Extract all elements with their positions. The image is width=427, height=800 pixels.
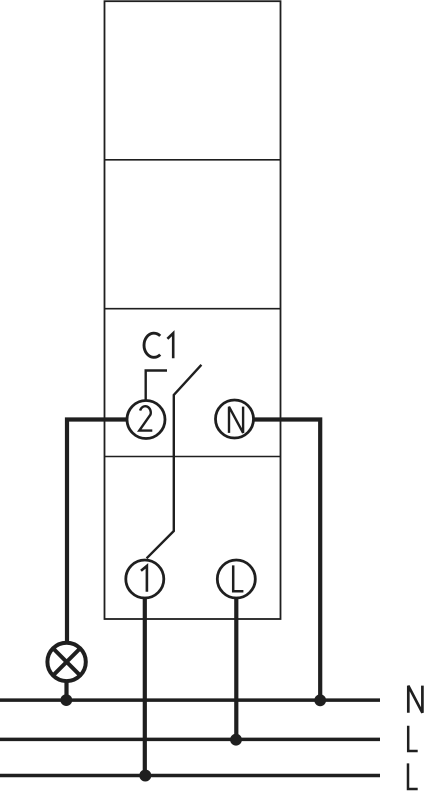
- wire from terminal 1 to L bus (bottom): [143, 597, 147, 776]
- wire from lamp to N bus: [64, 679, 68, 700]
- wire from terminal L to L bus (middle): [234, 597, 238, 740]
- N bus line: [0, 698, 380, 702]
- junction L wire/L bus: [230, 734, 242, 746]
- label C1: [144, 333, 173, 358]
- junction N wire/N bus: [314, 694, 326, 706]
- housing divider 1: [105, 159, 281, 161]
- net label L (bottom): [408, 763, 418, 789]
- terminal 1: [126, 560, 164, 598]
- terminal L: [217, 560, 255, 598]
- junction lamp/N bus: [60, 694, 72, 706]
- net label L (middle): [408, 726, 418, 751]
- terminal N: [216, 400, 254, 438]
- terminal 2: [127, 401, 165, 439]
- housing divider 2: [105, 308, 281, 310]
- housing divider 3: [105, 456, 281, 458]
- L bus line (bottom): [0, 774, 380, 778]
- net label N: [408, 686, 422, 713]
- wire from terminal N to N bus: [253, 420, 320, 701]
- switch contact blade: [147, 365, 202, 559]
- device outline (time switch housing): [105, 1, 281, 619]
- L bus line (middle): [0, 738, 380, 742]
- contact actuator link C1: [146, 371, 167, 401]
- junction 1 wire/L bus: [139, 770, 151, 782]
- wire from terminal 2 to lamp: [67, 420, 128, 645]
- lamp E1: [47, 643, 85, 681]
